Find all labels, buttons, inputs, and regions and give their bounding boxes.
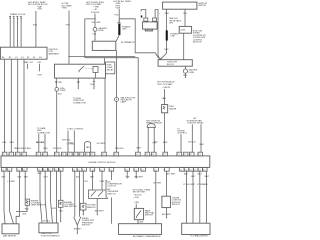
svg-text:ALTERNATOR: ALTERNATOR	[121, 41, 135, 44]
svg-text:GRY BLK: GRY BLK	[62, 139, 71, 141]
svg-text:BRN: BRN	[163, 142, 168, 144]
spark plugs label	[10, 13, 26, 16]
wire cruise module	[166, 171, 176, 196]
svg-text:POSITION SENSOR: POSITION SENSOR	[41, 235, 60, 237]
svg-text:PNK BLK: PNK BLK	[115, 148, 124, 150]
svg-text:SWITCH: SWITCH	[82, 225, 90, 227]
spark plug 4	[20, 17, 22, 23]
wire link to junction	[159, 41, 169, 60]
wire trans right	[153, 171, 161, 224]
svg-text:FAN SWITCH: FAN SWITCH	[64, 205, 77, 208]
wire coolant sensor down	[16, 205, 29, 215]
wire coil out 3	[17, 59, 19, 152]
pin labels top	[3, 154, 201, 156]
TCC control box	[182, 223, 210, 237]
wire relay to fuel pump	[55, 78, 63, 88]
svg-text:4PG: 4PG	[169, 23, 173, 25]
svg-text:GRY: GRY	[58, 82, 63, 84]
svg-text:AUTOMATIC TRANSMISSION: AUTOMATIC TRANSMISSION	[133, 235, 161, 238]
spark plug 2	[13, 17, 15, 23]
wire battery junction branch	[119, 19, 158, 58]
wire ign sw right leg	[183, 9, 187, 26]
svg-text:C1: C1	[190, 169, 192, 171]
wire relay right to ECM	[97, 78, 105, 152]
wire to fuel gauge	[162, 89, 166, 105]
svg-text:BLU: BLU	[198, 174, 202, 176]
wire AC 1	[68, 131, 74, 153]
wire junction to gauges fuse	[184, 66, 186, 69]
wire bus B drop to ECM	[137, 58, 142, 153]
node EST	[38, 62, 43, 77]
svg-text:BLK: BLK	[38, 173, 42, 175]
malfunction indicator lamp	[115, 96, 136, 103]
wire switch out	[95, 199, 105, 216]
wire ctrl labels row2	[183, 184, 208, 186]
svg-text:• FUS: • FUS	[134, 197, 140, 199]
svg-text:C1: C1	[83, 169, 85, 171]
svg-text:BLK: BLK	[59, 211, 63, 213]
pin labels bottom	[2, 169, 206, 171]
wire stub PNK	[126, 171, 131, 178]
node hot at all times bottom	[133, 188, 151, 204]
svg-text:C1: C1	[154, 169, 156, 171]
svg-text:BLK WHT: BLK WHT	[95, 210, 105, 212]
fuse gauges right	[183, 69, 198, 74]
svg-text:CONTROL RELAY: CONTROL RELAY	[187, 122, 204, 125]
svg-text:DK BLU: DK BLU	[43, 221, 51, 223]
fusible link alternator	[118, 24, 131, 35]
automatic transmission	[119, 224, 162, 239]
node fan relay	[187, 117, 204, 125]
relay switch	[79, 66, 84, 72]
spark plug 1	[9, 17, 11, 23]
svg-text:WHT: WHT	[191, 184, 196, 186]
wire data link 1	[36, 134, 45, 152]
svg-text:BLK: BLK	[90, 177, 94, 179]
wire coolant sensor	[24, 171, 28, 199]
svg-text:FUS BLK: FUS BLK	[91, 12, 100, 14]
relay dashed link	[85, 67, 94, 69]
svg-text:TAN: TAN	[24, 176, 28, 179]
svg-text:LAMP: LAMP	[121, 101, 127, 104]
wire ctrl 3	[198, 171, 202, 223]
svg-text:BATTERY: BATTERY	[146, 29, 155, 32]
wire funnel down	[74, 225, 83, 235]
svg-text:C1: C1	[194, 169, 196, 171]
svg-text:C1: C1	[126, 169, 128, 171]
wire plug3 to coil box	[17, 23, 19, 48]
relay label	[106, 62, 115, 74]
svg-text:PUMP: PUMP	[60, 90, 66, 92]
park neutral switch	[134, 208, 155, 219]
svg-text:CONTROL: CONTROL	[199, 236, 210, 238]
wire funnel 2	[76, 171, 80, 217]
svg-text:C1: C1	[44, 169, 46, 171]
wire MAT 1	[2, 171, 6, 224]
wire plug1 to coil box	[9, 23, 11, 48]
wire fuel gauge to ECM	[163, 113, 168, 152]
alternator	[116, 35, 135, 44]
wire fan relay 1	[188, 124, 196, 152]
wire branch left	[85, 19, 101, 58]
wire lamp to ECM	[115, 101, 124, 152]
wire mid switch drop / malfunction lamp feed	[116, 50, 118, 97]
wire speed sensor 1	[147, 127, 149, 152]
svg-text:PPL WHT: PPL WHT	[53, 148, 63, 150]
wire relay test connector	[73, 78, 86, 104]
svg-text:ENGINE CONTROL MODULE: ENGINE CONTROL MODULE	[89, 162, 117, 164]
wire ctrl 1	[184, 171, 188, 223]
svg-text:BLK: BLK	[204, 184, 208, 186]
battery	[143, 22, 158, 32]
svg-text:BLK BLT: BLK BLT	[74, 228, 83, 230]
svg-text:C1: C1	[17, 169, 19, 171]
wire cruise	[180, 134, 182, 152]
wire ctrl 4	[205, 171, 210, 223]
coolant temp sensor	[25, 199, 46, 207]
node text mid right	[154, 142, 158, 144]
svg-text:LT GRN: LT GRN	[67, 143, 75, 145]
wire ign sw left leg	[165, 9, 182, 30]
battery post right	[153, 18, 157, 21]
svg-text:GRY: GRY	[44, 177, 49, 179]
svg-text:TO A/C CONTROL: TO A/C CONTROL	[67, 128, 85, 131]
wire funnel 1	[74, 171, 76, 217]
wire sensor2	[60, 171, 62, 200]
svg-text:TAN WHT: TAN WHT	[134, 175, 144, 178]
svg-text:TEST OR START: TEST OR START	[157, 83, 173, 86]
ECM fuse box	[179, 26, 191, 33]
wire ctrl 2	[191, 171, 196, 223]
svg-text:DK GRN: DK GRN	[97, 143, 105, 145]
svg-text:ORN: ORN	[100, 181, 105, 183]
wire TPS 4	[43, 171, 57, 223]
node hot at all times mid	[113, 0, 131, 9]
svg-text:LINK: LINK	[171, 36, 176, 38]
svg-text:BLK: BLK	[76, 177, 80, 179]
wire labels row left	[3, 142, 45, 150]
svg-text:FUS LINK: FUS LINK	[92, 22, 102, 24]
wire stub TANWHT	[134, 171, 144, 178]
wire MAT 2	[8, 171, 16, 224]
node data link	[37, 127, 50, 134]
svg-text:C1: C1	[110, 169, 112, 171]
wire coil out 1	[4, 59, 6, 152]
svg-text:BLK: BLK	[58, 94, 62, 96]
wire data link 2	[43, 134, 48, 152]
svg-text:C1: C1	[23, 169, 25, 171]
oxygen sensor	[80, 203, 96, 210]
MAT sensor	[2, 224, 19, 238]
ECM fuse label	[193, 31, 207, 44]
wire bus B drop to relay	[104, 58, 106, 64]
svg-text:• TAN 20: • TAN 20	[162, 86, 171, 89]
wire switch to trans	[138, 220, 144, 224]
svg-text:DIST: DIST	[38, 75, 43, 77]
speed sensor	[146, 120, 162, 127]
svg-text:CONNECTOR: CONNECTOR	[73, 102, 86, 104]
svg-text:C1: C1	[92, 169, 94, 171]
svg-text:C1: C1	[163, 169, 165, 171]
svg-text:C1: C1	[142, 169, 144, 171]
svg-text:SWITCH: SWITCH	[107, 193, 115, 195]
svg-text:WHT: WHT	[10, 142, 15, 144]
svg-text:TAN: TAN	[86, 146, 90, 149]
svg-text:SET IN FUSE: SET IN FUSE	[133, 192, 146, 194]
junction block	[158, 60, 192, 66]
svg-text:BLK: BLK	[18, 177, 22, 179]
ignition switch box top right	[163, 2, 208, 9]
svg-text:TEMP SENSOR: TEMP SENSOR	[31, 205, 46, 207]
svg-text:BAT OUT: BAT OUT	[25, 61, 34, 64]
svg-text:GRY: GRY	[191, 176, 196, 178]
pressure switch funnel	[74, 217, 95, 227]
svg-text:C1: C1	[2, 169, 4, 171]
svg-text:C1: C1	[59, 169, 61, 171]
svg-text:CONTROL: CONTROL	[177, 133, 188, 135]
svg-text:IGN: IGN	[183, 13, 187, 15]
AC compressor text	[106, 180, 123, 198]
svg-text:SPARK PLUGS: SPARK PLUGS	[10, 13, 26, 16]
wire coolant return	[16, 171, 22, 224]
wire TPS 2	[44, 171, 49, 223]
fuel gauge	[162, 105, 177, 113]
svg-text:RED: RED	[165, 13, 170, 15]
wire TPS 3	[51, 171, 57, 223]
svg-text:FUS: FUS	[33, 25, 38, 27]
svg-text:BLK: BLK	[154, 142, 158, 144]
fuel pump	[55, 88, 66, 93]
wire ecm fuse to junction	[183, 33, 185, 60]
fusible link right	[166, 30, 180, 40]
node to AC	[67, 128, 85, 131]
wire plug2 to coil box	[13, 23, 15, 48]
svg-text:SENSOR: SENSOR	[87, 207, 96, 209]
wire fuel pump to ECM	[53, 91, 63, 152]
wire battery right arm to junction	[155, 10, 161, 60]
svg-text:• IGN: • IGN	[37, 9, 42, 11]
fuse gauges	[93, 27, 107, 32]
svg-text:RELAY: RELAY	[107, 68, 114, 71]
svg-text:C1: C1	[38, 169, 40, 171]
node bracket	[85, 142, 91, 153]
wire fan relay 2	[200, 124, 205, 152]
ignition coil assembly box	[0, 47, 47, 59]
svg-text:GRY: GRY	[52, 208, 57, 210]
wire sensor2 down	[59, 207, 63, 222]
wire fuse to ign switch	[93, 31, 97, 41]
svg-text:DK GRN: DK GRN	[153, 183, 161, 185]
svg-text:GRY WHT: GRY WHT	[166, 174, 176, 176]
engine control module	[1, 156, 210, 168]
wire oxygen	[83, 171, 89, 203]
svg-text:WHT: WHT	[205, 176, 210, 178]
svg-text:LINK: LINK	[122, 29, 127, 31]
svg-text:WHT: WHT	[200, 144, 205, 146]
svg-text:MODULE: MODULE	[193, 42, 202, 44]
spark plug 3	[16, 17, 18, 23]
wire ign fuse feed	[94, 14, 95, 28]
ECM top pin row	[2, 152, 202, 156]
svg-text:MAT SENSOR: MAT SENSOR	[3, 234, 17, 237]
svg-text:BRN: BRN	[137, 148, 142, 150]
svg-text:ECM: ECM	[181, 30, 186, 32]
svg-text:C1: C1	[203, 169, 205, 171]
svg-text:BLK: BLK	[25, 208, 29, 210]
node BAT OUT	[25, 61, 34, 69]
svg-text:FUSE: FUSE	[98, 30, 104, 32]
wire coil out 4	[23, 59, 25, 152]
wire oxygen down	[83, 210, 85, 216]
svg-text:BLK WHT: BLK WHT	[162, 214, 172, 216]
svg-text:C1: C1	[8, 169, 10, 171]
cruise control module	[162, 196, 183, 207]
svg-text:ORN: ORN	[43, 148, 48, 150]
svg-text:C1: C1	[55, 169, 57, 171]
ignition switch box mid	[92, 41, 116, 51]
AC switch box	[89, 190, 108, 199]
svg-text:C1: C1	[180, 169, 182, 171]
svg-text:C1: C1	[100, 169, 102, 171]
wire alternator feed	[115, 9, 122, 24]
svg-text:C1: C1	[78, 169, 80, 171]
wire bus A	[69, 55, 135, 57]
svg-text:SWITCH: SWITCH	[145, 215, 153, 217]
svg-text:BLK RED: BLK RED	[22, 148, 31, 150]
wire park switch 1	[90, 171, 94, 190]
fuel pump relay box	[55, 64, 106, 78]
svg-text:BLK: BLK	[2, 177, 6, 179]
wire to park neutral switch	[135, 204, 137, 209]
relay coil	[93, 67, 98, 79]
svg-text:LT BLU: LT BLU	[183, 184, 190, 186]
wire speed sensor 2	[153, 127, 158, 152]
coil assembly label	[49, 49, 60, 56]
svg-text:C1: C1	[135, 169, 137, 171]
svg-text:TAN: TAN	[162, 97, 166, 100]
svg-text:BLK: BLK	[23, 214, 27, 216]
wire fus feed to relay box	[66, 11, 71, 65]
svg-text:FUSE: FUSE	[189, 72, 195, 74]
svg-text:ASSEMBLY: ASSEMBLY	[49, 52, 60, 55]
svg-text:DK BLU: DK BLU	[188, 142, 196, 144]
svg-text:C1: C1	[73, 169, 75, 171]
svg-text:ORN: ORN	[134, 202, 139, 204]
node top feed text	[28, 1, 48, 11]
node hot at all times left	[62, 2, 73, 10]
svg-text:RED: RED	[164, 49, 169, 51]
svg-text:FUS: FUS	[66, 25, 71, 27]
wire gauges fuse down	[183, 73, 187, 78]
svg-text:PNK: PNK	[126, 176, 131, 178]
svg-text:BLK: BLK	[3, 142, 7, 144]
svg-text:• 30A: • 30A	[115, 7, 120, 10]
svg-text:• RED: • RED	[62, 8, 68, 10]
svg-text:C1: C1	[185, 169, 187, 171]
svg-text:C1: C1	[199, 169, 201, 171]
wire ignition feed to coil box	[33, 11, 38, 47]
wire coil out 2	[10, 59, 12, 152]
battery post left	[144, 18, 148, 21]
wire cruise down	[162, 208, 172, 219]
node hot in run right	[157, 82, 175, 90]
coolant sensor 2	[58, 200, 77, 208]
node hot in run	[86, 2, 105, 14]
svg-text:BLK: BLK	[91, 84, 95, 86]
wire relay ground	[91, 78, 96, 90]
node cruise	[177, 128, 188, 134]
svg-text:BLK BLK: BLK BLK	[36, 142, 45, 144]
wire bus B	[85, 57, 138, 59]
svg-text:C1: C1	[49, 169, 51, 171]
wire TPS 1	[38, 171, 42, 223]
wire AC 2	[62, 131, 75, 153]
svg-text:LT GRN: LT GRN	[8, 181, 16, 183]
svg-text:CLUTCH: CLUTCH	[107, 186, 116, 188]
wire plug4 to coil box	[20, 23, 22, 48]
wire park switch 2	[100, 171, 105, 190]
svg-text:SWITCH: SWITCH	[172, 204, 180, 206]
throttle position sensor	[39, 223, 60, 237]
ECM bottom pin row	[1, 168, 207, 172]
svg-text:FUS: FUS	[115, 14, 120, 16]
svg-text:BLK: BLK	[184, 174, 188, 176]
svg-text:BLOCK: BLOCK	[167, 64, 174, 66]
wire trans left	[110, 171, 112, 224]
wire battery left arm	[140, 10, 146, 18]
svg-text:SWITCH: SWITCH	[198, 5, 206, 7]
svg-text:GAUGE: GAUGE	[169, 107, 177, 110]
